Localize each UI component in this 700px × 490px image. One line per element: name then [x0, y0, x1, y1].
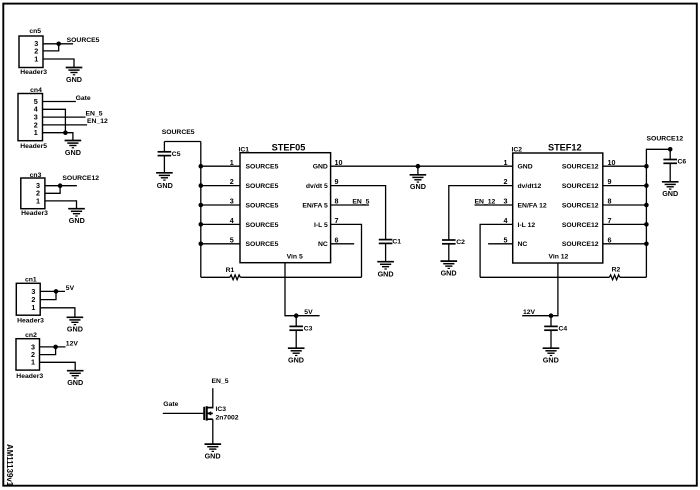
- IC U2 STEF12: [512, 143, 603, 263]
- svg-text:1: 1: [34, 54, 38, 63]
- wire 12V to C4: [550, 316, 552, 327]
- wire cn3 pin1 to ground: [45, 201, 77, 209]
- svg-text:Header5: Header5: [20, 143, 47, 150]
- svg-text:Header3: Header3: [16, 373, 43, 380]
- svg-text:3: 3: [230, 197, 234, 206]
- svg-text:5V: 5V: [304, 309, 313, 316]
- junction bus pin4: [199, 222, 204, 227]
- wire C3 to ground: [295, 330, 297, 348]
- svg-text:GND: GND: [288, 356, 304, 365]
- connector cn1 (Header3): [16, 277, 44, 325]
- svg-text:R2: R2: [612, 267, 621, 274]
- ground GND (cn1): [67, 317, 84, 324]
- ground GND (cn5): [66, 68, 83, 75]
- wire IC2 pin5 NC stub: [488, 243, 513, 245]
- junction mid GND: [416, 164, 421, 169]
- svg-text:GND: GND: [67, 378, 83, 387]
- wire R2 to bus: [620, 276, 647, 278]
- junction bus pin1: [199, 164, 204, 169]
- wire IC1 pin9 to C1: [331, 186, 386, 240]
- svg-text:GND: GND: [662, 189, 678, 198]
- svg-text:SOURCE5: SOURCE5: [246, 164, 279, 171]
- wire IC1 pin1: [201, 165, 240, 167]
- transistor Q1 IC3 2n7002: [204, 406, 213, 420]
- svg-text:SOURCE12: SOURCE12: [562, 222, 599, 229]
- wire SOURCE5 to bus: [164, 141, 200, 143]
- capacitor C3: [289, 326, 303, 330]
- svg-text:Gate: Gate: [76, 95, 91, 102]
- wire IC2 pin2 to C2: [449, 186, 513, 240]
- svg-text:SOURCE12: SOURCE12: [562, 164, 599, 171]
- svg-text:EN/FA 5: EN/FA 5: [302, 202, 328, 209]
- svg-text:1: 1: [36, 196, 40, 205]
- wire cn4 pin4 down to pin1: [43, 109, 66, 132]
- svg-text:1: 1: [230, 158, 234, 167]
- wire cn1 pin3 to 5V: [40, 290, 65, 292]
- svg-text:GND: GND: [410, 182, 426, 191]
- junction bus pin2: [199, 183, 204, 188]
- ground GND (cn2): [67, 371, 84, 378]
- svg-text:2n7002: 2n7002: [216, 415, 239, 422]
- junction bus pin5: [199, 242, 204, 247]
- svg-text:GND: GND: [66, 75, 82, 84]
- wire IC1 pin6 NC stub: [331, 243, 355, 245]
- connector cn4 (Header5): [18, 87, 47, 150]
- svg-text:GND: GND: [65, 148, 81, 157]
- svg-text:1: 1: [34, 128, 38, 137]
- svg-text:5: 5: [504, 235, 508, 244]
- wire cn4 pin2 to EN_12: [43, 124, 88, 126]
- svg-text:8: 8: [335, 197, 339, 206]
- svg-text:1: 1: [31, 358, 35, 367]
- svg-text:R1: R1: [226, 267, 235, 274]
- svg-text:GND: GND: [313, 164, 328, 171]
- wire Q1 drain: [212, 388, 214, 407]
- svg-text:STEF12: STEF12: [548, 143, 582, 153]
- junction bus pin3: [199, 203, 204, 208]
- junction bus12 pin7: [644, 222, 649, 227]
- svg-text:GND: GND: [378, 270, 394, 279]
- wire IC2 pin6 to bus: [603, 243, 647, 245]
- svg-text:Vin 5: Vin 5: [287, 254, 303, 261]
- wire C1 to ground: [385, 243, 387, 261]
- svg-text:7: 7: [335, 216, 339, 225]
- wire cn1 pin2: [40, 291, 56, 299]
- ground GND (C1): [377, 262, 394, 269]
- svg-text:cn5: cn5: [29, 28, 41, 35]
- wire Vin 12 down: [522, 263, 558, 316]
- svg-text:GND: GND: [157, 181, 173, 190]
- svg-text:EN_12: EN_12: [87, 118, 108, 125]
- wire C5 to ground: [163, 156, 165, 173]
- svg-text:EN_5: EN_5: [212, 378, 229, 385]
- svg-text:10: 10: [608, 158, 616, 167]
- junction cn5: [56, 42, 61, 47]
- svg-text:4: 4: [230, 216, 234, 225]
- wire cn4 pin5 to Gate: [43, 101, 76, 103]
- ground GND (C5): [156, 173, 173, 180]
- svg-text:cn2: cn2: [25, 332, 37, 339]
- svg-text:SOURCE5: SOURCE5: [246, 183, 279, 190]
- wire R2 net: [480, 276, 609, 278]
- connector cn5 (Header3): [19, 28, 47, 76]
- capacitor C6: [663, 160, 677, 164]
- svg-text:IC3: IC3: [216, 406, 227, 413]
- wire cn4 pin1 to ground: [43, 133, 73, 141]
- svg-text:EN_12: EN_12: [475, 199, 496, 206]
- ground GND (C6): [662, 182, 679, 189]
- resistor R2: [609, 275, 620, 280]
- wire Q1 gate: [163, 412, 204, 414]
- svg-text:5: 5: [230, 235, 234, 244]
- svg-text:C1: C1: [392, 239, 401, 246]
- junction bus12 pin10: [644, 164, 649, 169]
- svg-text:4: 4: [504, 216, 508, 225]
- svg-text:C3: C3: [304, 325, 313, 332]
- wire cn4 pin3 to EN_5: [43, 116, 86, 118]
- junction 12V node: [549, 313, 554, 318]
- svg-text:Header3: Header3: [20, 69, 47, 76]
- wire C2 to ground: [448, 244, 450, 261]
- wire Vin 5 down: [285, 263, 320, 316]
- svg-text:GND: GND: [205, 452, 221, 461]
- IC U1 STEF05: [239, 143, 331, 263]
- svg-text:8: 8: [608, 197, 612, 206]
- wire C5 top: [163, 142, 165, 152]
- svg-text:NC: NC: [318, 241, 328, 248]
- ground GND (mid): [410, 175, 427, 182]
- wire C6 to ground: [669, 163, 671, 182]
- svg-text:Header3: Header3: [17, 318, 44, 325]
- ground GND (cn3): [68, 209, 85, 216]
- svg-text:SOURCE5: SOURCE5: [67, 37, 100, 44]
- svg-text:SOURCE12: SOURCE12: [562, 241, 599, 248]
- svg-text:IC2: IC2: [512, 146, 523, 153]
- wire IC2 pin3 EN_12: [475, 204, 513, 206]
- junction cn4 pin1/pin4: [63, 130, 68, 135]
- wire cn2 pin2: [40, 347, 56, 355]
- svg-text:dv/dt12: dv/dt12: [518, 183, 542, 190]
- capacitor C2: [442, 240, 456, 244]
- wire cn1 pin1 to ground: [40, 308, 75, 318]
- ground GND (C4): [543, 348, 560, 355]
- capacitor C1: [379, 240, 393, 244]
- svg-text:SOURCE12: SOURCE12: [562, 202, 599, 209]
- svg-text:C4: C4: [559, 325, 568, 332]
- junction bus12 pin9: [644, 183, 649, 188]
- svg-text:AM11139v1: AM11139v1: [5, 444, 14, 487]
- wire IC1 pin8 EN_5: [331, 204, 369, 206]
- svg-text:SOURCE12: SOURCE12: [647, 136, 684, 143]
- wire mid GND stub: [417, 166, 419, 175]
- connector cn3 (Header3): [21, 172, 48, 217]
- wire cn3 pin3 to SOURCE12: [45, 185, 77, 187]
- wire Q1 source to ground: [212, 419, 214, 444]
- svg-text:GND: GND: [441, 269, 457, 278]
- ground GND (C3): [288, 348, 305, 355]
- svg-text:GND: GND: [518, 164, 533, 171]
- svg-text:EN_5: EN_5: [352, 199, 369, 206]
- svg-text:C5: C5: [172, 151, 181, 158]
- svg-text:Vin 12: Vin 12: [548, 254, 568, 261]
- svg-text:1: 1: [31, 303, 35, 312]
- wire IC2 pin10 to bus: [603, 165, 647, 167]
- wire IC1 pin4: [201, 223, 240, 225]
- wire IC1 pin5: [201, 243, 240, 245]
- svg-text:2: 2: [230, 177, 234, 186]
- wire cn5 pin1 to ground: [43, 59, 74, 68]
- connector cn2 (Header3): [16, 332, 43, 380]
- capacitor C5: [158, 152, 172, 156]
- ground GND (cn4): [65, 141, 82, 148]
- svg-text:IC1: IC1: [239, 146, 250, 153]
- resistor R1: [230, 275, 241, 280]
- svg-text:SOURCE5: SOURCE5: [246, 222, 279, 229]
- svg-text:EN/FA 12: EN/FA 12: [518, 202, 547, 209]
- svg-text:GND: GND: [543, 356, 559, 365]
- ground GND (Q1): [205, 444, 222, 451]
- junction 5V node: [294, 313, 299, 318]
- wire IC2 pin7 to bus: [603, 223, 647, 225]
- svg-text:C2: C2: [456, 239, 465, 246]
- SOURCE5 bus wire: [200, 142, 202, 278]
- svg-text:12V: 12V: [523, 309, 536, 316]
- svg-text:SOURCE12: SOURCE12: [62, 175, 99, 182]
- svg-text:STEF05: STEF05: [272, 143, 306, 153]
- wire 5V to C3: [295, 316, 297, 327]
- junction bus12 pin6: [644, 242, 649, 247]
- svg-text:10: 10: [335, 158, 343, 167]
- svg-text:cn3: cn3: [30, 172, 42, 179]
- svg-text:SOURCE12: SOURCE12: [562, 183, 599, 190]
- svg-text:Header3: Header3: [21, 210, 48, 217]
- svg-text:NC: NC: [518, 241, 528, 248]
- svg-text:5V: 5V: [66, 285, 75, 292]
- wire C6 top: [669, 149, 671, 159]
- wire IC2 pin8 to bus: [603, 204, 647, 206]
- junction cn1: [54, 289, 59, 294]
- svg-text:1: 1: [504, 158, 508, 167]
- svg-text:SOURCE5: SOURCE5: [246, 202, 279, 209]
- wire C4 to ground: [550, 330, 552, 348]
- junction cn3: [58, 183, 63, 188]
- svg-text:2: 2: [504, 177, 508, 186]
- capacitor C4: [544, 326, 558, 330]
- svg-text:7: 7: [608, 216, 612, 225]
- wire IC1 pin2: [201, 185, 240, 187]
- svg-text:9: 9: [335, 177, 339, 186]
- wire R1 to pin7: [240, 276, 361, 278]
- svg-text:SOURCE5: SOURCE5: [162, 129, 195, 136]
- wire IC1 pin7 down: [331, 224, 362, 277]
- svg-text:6: 6: [608, 235, 612, 244]
- svg-text:GND: GND: [69, 216, 85, 225]
- wire cn2 pin3 to 12V: [40, 346, 66, 348]
- svg-text:9: 9: [608, 177, 612, 186]
- SOURCE12 bus wire: [646, 149, 670, 277]
- wire cn5 pin2: [43, 44, 59, 51]
- svg-text:6: 6: [335, 235, 339, 244]
- junction bus12 pin8: [644, 203, 649, 208]
- svg-text:C6: C6: [678, 158, 687, 165]
- wire IC2 pin9 to bus: [603, 185, 647, 187]
- junction C6 node: [668, 147, 673, 152]
- svg-text:I-L 5: I-L 5: [314, 222, 328, 229]
- wire cn3 pin2: [45, 186, 60, 194]
- svg-text:3: 3: [504, 197, 508, 206]
- svg-text:I-L 12: I-L 12: [518, 222, 536, 229]
- wire R1 net: [201, 276, 230, 278]
- wire cn2 pin1 to ground: [40, 362, 76, 370]
- svg-text:dv/dt 5: dv/dt 5: [306, 183, 328, 190]
- svg-text:EN_5: EN_5: [86, 111, 103, 118]
- svg-text:GND: GND: [67, 325, 83, 334]
- junction cn2: [53, 345, 58, 350]
- svg-text:cn1: cn1: [25, 277, 37, 284]
- svg-text:SOURCE5: SOURCE5: [246, 241, 279, 248]
- ground GND (C2): [441, 261, 458, 268]
- svg-text:cn4: cn4: [30, 87, 42, 94]
- wire cn5 pin3 to SOURCE5: [43, 43, 73, 45]
- svg-text:12V: 12V: [66, 340, 79, 347]
- wire IC2 pin4 down: [480, 224, 513, 277]
- wire GND net IC1 pin10 to IC2 pin1: [331, 165, 513, 167]
- wire IC1 pin3: [201, 204, 240, 206]
- svg-text:Gate: Gate: [163, 401, 178, 408]
